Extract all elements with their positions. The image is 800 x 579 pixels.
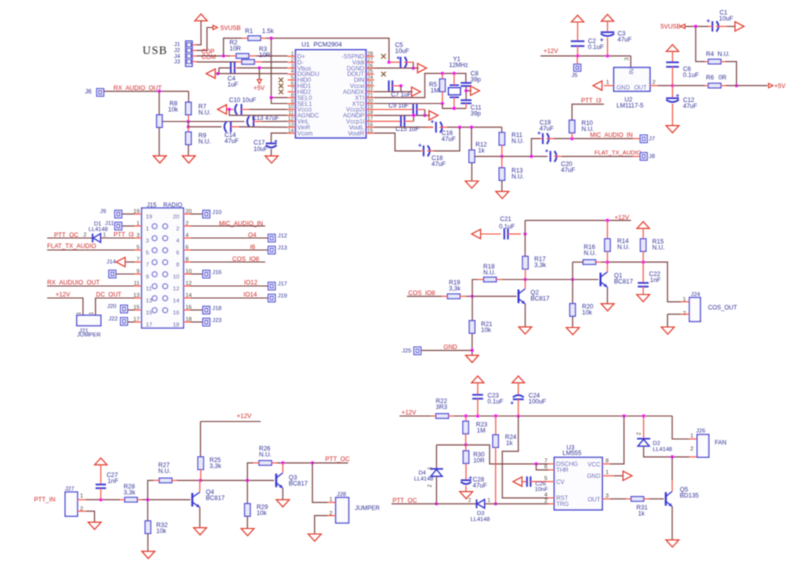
ground R8 [153, 156, 166, 163]
U1 pin 1 stub [288, 55, 296, 57]
svg-text:J20: J20 [107, 304, 116, 310]
ground R32 [142, 551, 155, 558]
svg-text:J25: J25 [402, 348, 411, 354]
junction C6/C12 [671, 84, 674, 87]
junction DGND [412, 67, 415, 70]
wire pin4 to J12 [191, 237, 269, 239]
wire J24 pin2 [668, 313, 682, 315]
J15 pin 14 stub [184, 297, 191, 299]
power port +5V right [769, 83, 774, 87]
wire Vbus to C4 [238, 67, 260, 69]
U1 pin 26 stub [366, 67, 374, 69]
svg-text:16: 16 [173, 311, 179, 317]
svg-text:N.U.: N.U. [158, 468, 171, 475]
transistor Q5 BD135 [665, 492, 667, 506]
junction R27/R32 [146, 498, 149, 501]
wire C8 to C11 [465, 86, 467, 100]
wire J9 to pin19 [122, 213, 134, 215]
junction SEL0 [270, 96, 273, 99]
svg-text:C13 47uF: C13 47uF [252, 115, 279, 122]
arrow AGND C10 [218, 105, 227, 114]
wire D4 to TRG line [436, 477, 438, 504]
svg-text:0.1uF: 0.1uF [588, 44, 604, 51]
svg-text:J6: J6 [85, 88, 92, 95]
svg-text:N.U.: N.U. [617, 244, 630, 251]
U1 pin 28 stub [366, 55, 374, 57]
J15 pin 6 stub [184, 249, 191, 251]
wire R26 to PTT_OC [277, 462, 312, 464]
wire DGNDU [216, 73, 288, 75]
J15 pin 13 stub [134, 297, 141, 299]
wire J14 to pin7 [126, 261, 135, 263]
wire J22 to pin17 [128, 321, 135, 323]
wire FLAT_TX_AUDIO [562, 155, 634, 157]
svg-text:0.1uF: 0.1uF [499, 224, 515, 231]
ground R21 [466, 355, 479, 362]
svg-text:1M: 1M [431, 88, 440, 95]
wire to THR [536, 464, 548, 470]
resistor R9 [187, 127, 189, 132]
svg-text:VCC: VCC [588, 463, 601, 469]
svg-text:10R: 10R [259, 52, 271, 59]
wire AGNDX [374, 91, 413, 93]
J15 pin 9 stub [134, 273, 141, 275]
U1 pin 7 stub [288, 91, 296, 93]
svg-text:PTT_I3: PTT_I3 [114, 232, 135, 239]
junction divider/R7 [187, 120, 190, 123]
resistor R29 [246, 480, 248, 503]
svg-text:2: 2 [544, 499, 547, 505]
svg-text:20: 20 [173, 215, 179, 221]
svg-text:BC817: BC817 [289, 480, 308, 487]
junction PTT_OC/J28 [311, 461, 314, 464]
wire J20 to pin15 [128, 309, 135, 311]
svg-text:100uF: 100uF [529, 399, 547, 406]
wire R9 to gnd [187, 145, 189, 156]
junction C9/AGNDP [423, 114, 426, 117]
svg-text:IN: IN [630, 69, 636, 75]
J15 pin 18 stub [184, 321, 191, 323]
wire CDP J1 to R2 [197, 55, 231, 57]
junction C18 out [458, 126, 461, 129]
arrow gnd U2 [593, 81, 602, 90]
svg-text:1: 1 [428, 467, 434, 470]
wire MIC_AUDIO_IN [554, 138, 634, 140]
svg-text:BC817: BC817 [206, 495, 225, 502]
svg-text:1nF: 1nF [650, 277, 661, 284]
svg-text:5: 5 [544, 476, 547, 482]
no-connect X [279, 84, 284, 89]
wire to +5V port [726, 85, 768, 87]
no-connect X [279, 89, 284, 94]
svg-text:N.U.: N.U. [512, 174, 525, 181]
svg-text:N.U.: N.U. [198, 110, 211, 117]
crystal circuit XTI rail [374, 73, 466, 97]
svg-text:1uF: 1uF [228, 82, 239, 89]
junction R14 top [606, 219, 609, 222]
resistor R25 [200, 422, 202, 457]
timer U3 LM555 body [554, 457, 602, 510]
wire RX_AUDUIO_OUT to pin11 [47, 285, 134, 287]
svg-text:3: 3 [606, 493, 609, 499]
U1 pin 13 stub [288, 126, 296, 128]
wire PTT_OC to D3 [392, 503, 477, 505]
wire RST [502, 416, 548, 498]
svg-text:19: 19 [146, 215, 152, 221]
connector J15 RADIO header body [142, 208, 184, 328]
svg-text:LM555: LM555 [563, 450, 582, 457]
svg-text:J11: J11 [105, 221, 114, 227]
U1 pin 16 stub [366, 126, 374, 128]
wire Vbus to U1 [259, 67, 287, 69]
resistor R23 [465, 416, 467, 421]
J15 pin 1 stub [134, 225, 141, 227]
svg-text:LM1117-5: LM1117-5 [617, 102, 645, 109]
svg-text:10: 10 [173, 275, 179, 281]
wire C10 to Vccci [249, 108, 288, 110]
svg-text:13: 13 [146, 299, 152, 305]
svg-text:+12V: +12V [237, 413, 252, 420]
resistor R32 [147, 500, 149, 521]
wire VCC to +12V [610, 416, 624, 464]
svg-text:LL4148: LL4148 [471, 517, 490, 523]
svg-text:1: 1 [89, 312, 95, 315]
wire PTT_OC to J28 pin1 [312, 463, 327, 503]
svg-text:10k: 10k [257, 510, 268, 517]
ground J27 [88, 522, 101, 529]
resistor R12 [471, 127, 473, 150]
wire D2 to J26 pin2 [644, 446, 689, 457]
svg-text:3,3k: 3,3k [534, 262, 547, 269]
connector J9 [115, 210, 122, 218]
svg-text:C9 1uF: C9 1uF [389, 102, 410, 109]
svg-text:+12V: +12V [615, 214, 630, 221]
wire C4 to gnd line [219, 68, 231, 74]
capacitor C14 [224, 121, 226, 132]
svg-text:1.5k: 1.5k [262, 28, 275, 35]
svg-text:C10 10uF: C10 10uF [229, 97, 256, 104]
svg-text:3: 3 [625, 58, 631, 61]
wire pin2 MIC_AUDIO_IN [191, 225, 266, 227]
wire THR node [437, 445, 549, 464]
junction C24 [517, 414, 520, 417]
J15 pin 7 stub [134, 261, 141, 263]
J15 pin 16 stub [184, 309, 191, 311]
svg-text:J8: J8 [649, 154, 655, 160]
junction 5VUSB/C1 [694, 25, 697, 28]
svg-text:3: 3 [136, 233, 139, 239]
connector J5 [576, 56, 578, 64]
svg-text:N.U.: N.U. [512, 138, 525, 145]
J15 pin 10 stub [184, 273, 191, 275]
wire mid audio line [475, 155, 548, 157]
arrow AGNDX port [412, 87, 421, 96]
svg-text:1: 1 [136, 221, 139, 227]
svg-text:47uF: 47uF [540, 125, 554, 132]
J15 pin 8 stub [184, 261, 191, 263]
junction R12 top [470, 126, 473, 129]
svg-text:1M: 1M [477, 427, 486, 434]
arrow gnd U3 [623, 471, 632, 480]
svg-text:COS_OUT: COS_OUT [708, 305, 737, 311]
svg-text:1: 1 [80, 494, 83, 500]
no-connect X [279, 78, 284, 83]
svg-text:USB: USB [143, 45, 168, 57]
capacitor C9 [374, 109, 413, 111]
resistor R14 [606, 220, 608, 238]
svg-text:0.1uF: 0.1uF [683, 72, 699, 79]
wire audio sum [447, 126, 502, 128]
svg-text:10k: 10k [481, 327, 492, 334]
wire to pin9 [116, 273, 134, 275]
junction C8/C11/arrow [465, 89, 468, 92]
junction C7/AGNDX [399, 84, 402, 87]
wire J27 pin1 [86, 499, 120, 501]
arrow port C1 right [735, 22, 744, 31]
J15 pin 12 stub [184, 285, 191, 287]
wire pin10 to J16 [191, 273, 203, 275]
capacitor C1 [711, 21, 713, 31]
svg-text:10R: 10R [230, 46, 242, 53]
resistor R4 [696, 26, 705, 61]
junction C10/AGNDC [228, 108, 231, 111]
wire R21 to gnd [471, 333, 473, 355]
ground Q1 [601, 304, 614, 311]
net label +12V COS [524, 220, 526, 234]
power port +5V down [258, 68, 260, 80]
arrow DGND port [418, 63, 427, 72]
wire J27 pin2 to gnd [86, 511, 95, 522]
ground Q2 [519, 327, 532, 334]
svg-text:BC817: BC817 [531, 296, 550, 303]
U1 pin 21 stub [366, 97, 374, 99]
junction Q5 collector [671, 455, 674, 458]
svg-text:N.U.: N.U. [259, 452, 272, 459]
svg-text:2: 2 [637, 432, 643, 435]
resistor R6 [708, 83, 721, 88]
svg-text:1nF: 1nF [108, 478, 119, 485]
svg-text:J14: J14 [107, 260, 117, 266]
junction R5 top [441, 72, 444, 75]
svg-text:J26: J26 [696, 429, 705, 435]
wire R28 to Q4 base [142, 499, 190, 501]
J15 pin 5 stub [134, 249, 141, 251]
svg-text:6: 6 [186, 245, 189, 251]
arrow gnd C6 [666, 45, 678, 52]
svg-text:1: 1 [77, 312, 83, 315]
junction D4/TRG [435, 502, 438, 505]
wire Q5 collector [671, 457, 673, 480]
junction D2 [642, 414, 645, 417]
ground C12 [666, 126, 679, 133]
wire R19 to Q2 base [466, 295, 517, 297]
transistor Q4 BC817 [191, 493, 193, 507]
connector at pin9 [109, 270, 116, 278]
svg-text:2: 2 [84, 232, 87, 238]
junction Q4 collector [199, 479, 202, 482]
svg-text:N.U.: N.U. [584, 250, 597, 257]
svg-text:J5: J5 [572, 73, 578, 79]
ground Q4 [194, 528, 207, 535]
wire DGND [374, 67, 419, 69]
resistor R19 [447, 294, 460, 299]
U1 pin 12 stub [288, 120, 296, 122]
capacitor C19 [531, 139, 540, 157]
svg-text:6: 6 [544, 465, 547, 471]
junction R19/R21/R18 [471, 295, 474, 298]
wire Q4 collector to Q3 base [201, 479, 275, 481]
svg-text:J17: J17 [278, 282, 287, 288]
connector J27 [65, 492, 77, 516]
wire +12V PTT [201, 421, 261, 423]
diode D4 [436, 445, 438, 469]
svg-text:7: 7 [146, 263, 149, 269]
connector J6 [97, 89, 104, 97]
svg-text:1: 1 [606, 80, 609, 86]
svg-text:2: 2 [428, 484, 434, 487]
wire +12V to R22 [400, 415, 432, 417]
svg-text:47uF: 47uF [618, 37, 632, 44]
wire 5VUSB to J1 pin2 [196, 28, 213, 51]
svg-text:10R: 10R [473, 457, 485, 464]
U1 pin 18 stub [366, 114, 374, 116]
svg-text:J13: J13 [278, 246, 287, 252]
wire AGNDC to C10 [229, 109, 287, 115]
wire R8 to gnd [158, 127, 160, 155]
junction R11 bottom [500, 155, 503, 158]
resistor R22 [436, 414, 449, 419]
svg-text:JUMPER: JUMPER [355, 506, 380, 512]
U1 pin 23 stub [366, 85, 374, 87]
ground J28 [308, 534, 321, 541]
wire +12V rail [541, 55, 631, 57]
U2 pin1 GND [604, 85, 614, 87]
wire Q3 emitter to gnd [282, 488, 284, 500]
resistor R18 [472, 280, 478, 297]
svg-text:FLAT_TX_AUDIO: FLAT_TX_AUDIO [595, 151, 642, 157]
svg-text:15: 15 [146, 311, 152, 317]
svg-text:47uF: 47uF [561, 167, 575, 174]
svg-text:R4: R4 [706, 51, 714, 58]
no-connect X [381, 54, 386, 59]
svg-text:2: 2 [186, 221, 189, 227]
svg-text:10uF: 10uF [395, 48, 409, 55]
svg-text:COM: COM [202, 54, 216, 61]
junction C15/AGNDP [412, 114, 415, 117]
svg-text:1k: 1k [506, 440, 513, 447]
svg-text:7: 7 [136, 257, 139, 263]
ground R12 [465, 181, 478, 188]
U1 pin 6 stub [288, 85, 296, 87]
transistor Q3 BC817 [275, 474, 277, 488]
svg-text:LL4148: LL4148 [414, 476, 433, 482]
wire pin20 to J10 [191, 213, 203, 215]
svg-text:1: 1 [683, 297, 686, 303]
svg-text:5VUSB: 5VUSB [661, 23, 681, 30]
wire pin16 to J18 [191, 309, 203, 311]
capacitor C18 [374, 133, 421, 151]
wire pin6 to J13 [191, 249, 269, 251]
J15 pin 20 stub [184, 213, 191, 215]
svg-text:0.1uF: 0.1uF [488, 399, 504, 406]
svg-text:GND: GND [587, 474, 601, 480]
wire collector node to J24 [601, 262, 681, 302]
wire divider to C13 [163, 121, 245, 123]
svg-text:1: 1 [329, 497, 332, 503]
svg-text:OUT: OUT [634, 85, 647, 91]
junction C3 [606, 54, 609, 57]
resistor R30 [465, 445, 467, 451]
U3 pin8 VCC [602, 463, 610, 465]
svg-text:39p: 39p [471, 77, 482, 84]
svg-text:2: 2 [468, 498, 471, 504]
wire Q4 emitter to gnd [199, 507, 201, 527]
svg-text:18: 18 [173, 323, 179, 329]
wire R31 to Q5 base [649, 498, 664, 500]
wire COM J1 to R3 [197, 61, 237, 63]
capacitor C22 [642, 262, 644, 283]
connector J7 [640, 135, 647, 143]
svg-text:8: 8 [176, 263, 179, 269]
wire D3 to TRG [485, 503, 549, 505]
junction VCC8 [622, 414, 625, 417]
wire +12V to J21 pin1 [47, 298, 83, 315]
svg-text:12MHz: 12MHz [449, 63, 468, 69]
junction Vddi [387, 61, 390, 64]
U1 pin 9 stub [288, 103, 296, 105]
connector J21 jumper [77, 315, 101, 325]
junction C4/DGNDU [216, 72, 219, 75]
svg-text:N.U.: N.U. [582, 126, 595, 133]
wire PTT_OC to D1 [47, 237, 93, 239]
junction R9/C14 [187, 125, 190, 128]
svg-text:10uF: 10uF [254, 146, 268, 153]
svg-text:J27: J27 [65, 487, 74, 493]
svg-text:+5V: +5V [254, 85, 266, 92]
connector J11 [115, 222, 122, 230]
svg-text:J23: J23 [212, 318, 221, 324]
capacitor C15 [374, 120, 401, 122]
wire SEL1 [271, 98, 287, 104]
ground C17 [265, 156, 278, 163]
svg-text:PCM2904: PCM2904 [314, 42, 343, 49]
svg-text:LL4148: LL4148 [653, 447, 672, 453]
svg-text:14: 14 [173, 299, 180, 305]
U2 pin2 OUT [650, 85, 658, 87]
svg-text:14: 14 [288, 128, 294, 134]
resistor R11 [501, 127, 503, 132]
junction R26/R29 [246, 479, 249, 482]
wire J11 to pin1 [122, 225, 134, 227]
U1 pin 3 stub [288, 67, 296, 69]
junction Vbus/+5V [258, 66, 261, 69]
svg-text:FAN: FAN [715, 441, 727, 447]
svg-text:10k: 10k [168, 106, 179, 113]
wire Q1 emitter to gnd [606, 287, 608, 304]
wire Vcom to C17 [271, 133, 287, 143]
svg-text:CV: CV [556, 480, 564, 486]
capacitor C28 [461, 479, 471, 481]
svg-text:10uF: 10uF [719, 15, 733, 22]
svg-text:FLAT_TX_AUDIO: FLAT_TX_AUDIO [47, 243, 96, 250]
svg-text:0R: 0R [719, 75, 727, 82]
wire +5V line [658, 85, 706, 87]
svg-text:N.U.: N.U. [652, 244, 665, 251]
junction R24 [494, 414, 497, 417]
svg-text:15: 15 [367, 128, 373, 134]
J15 pin 4 stub [184, 237, 191, 239]
svg-text:J15: J15 [147, 203, 157, 209]
